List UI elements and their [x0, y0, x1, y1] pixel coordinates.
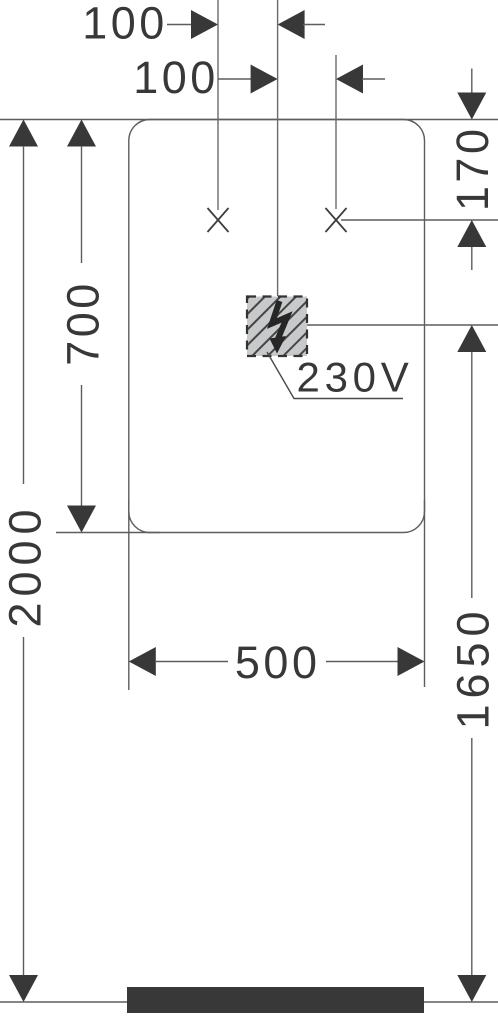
floor plinth bar	[127, 987, 424, 1013]
vertical reference line at x=218 (first 100 offset)	[217, 0, 219, 210]
extension line right of 500 dim	[424, 500, 426, 687]
dimension 2000 far left	[0, 120, 51, 1003]
horizontal line from socket to edge (1650 level)	[307, 324, 498, 326]
svg-text:500: 500	[235, 637, 321, 688]
leader line to 230V label	[267, 352, 403, 399]
lightning bolt in socket	[270, 301, 288, 354]
svg-text:2000: 2000	[0, 503, 51, 627]
wall top line	[0, 119, 498, 121]
dimension 500 bottom	[129, 637, 425, 688]
svg-text:230V: 230V	[297, 354, 414, 401]
svg-text:100: 100	[82, 0, 168, 49]
vertical centre line at x=277.6 down to socket	[277, 0, 279, 296]
svg-text:700: 700	[58, 280, 109, 366]
dimension 100 row 1	[82, 0, 325, 49]
extension line left of 500 dim	[128, 500, 130, 690]
dimension 170 right	[447, 69, 498, 271]
floor line	[0, 1001, 498, 1003]
svg-text:170: 170	[447, 126, 498, 212]
socket box hatched	[247, 297, 307, 357]
node X mark right (lamp position)	[326, 208, 347, 232]
horizontal line from right X to edge (170 level)	[341, 219, 498, 221]
node X mark left (lamp position)	[208, 208, 229, 232]
svg-text:1650: 1650	[447, 605, 498, 729]
dimension 100 row 2	[133, 52, 385, 103]
dimension 700 left	[58, 120, 109, 533]
mirror bottom extension line	[56, 532, 160, 534]
mirror cabinet outline (rounded rect 500x700)	[129, 120, 425, 533]
svg-text:100: 100	[133, 52, 219, 103]
dimension 1650 right	[447, 325, 498, 1002]
vertical reference line at x=336 (second 100 offset)	[335, 55, 337, 209]
